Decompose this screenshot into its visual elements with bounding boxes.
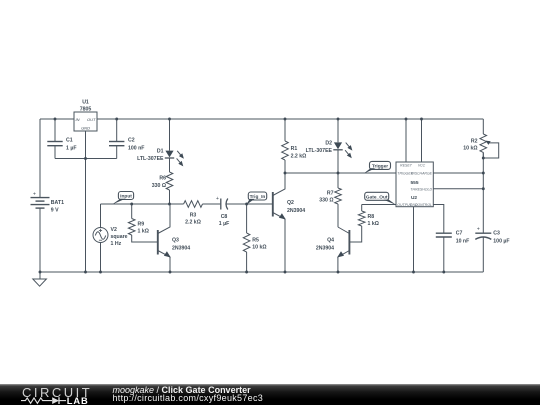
junction V+ rail / D2 bbox=[337, 118, 340, 121]
junction ground rail / Q3 bbox=[169, 271, 172, 274]
voltage regulator U1 7805 bbox=[74, 112, 97, 131]
capacitor C1 1uF bbox=[54, 119, 56, 141]
svg-text:555: 555 bbox=[410, 180, 418, 186]
svg-text:LAB: LAB bbox=[67, 396, 89, 405]
junction ground rail / Q2 bbox=[284, 271, 287, 274]
LED D1 LTL-307EE bbox=[169, 119, 171, 151]
svg-text:R6: R6 bbox=[159, 176, 166, 182]
svg-text:+: + bbox=[33, 191, 36, 197]
svg-text:7805: 7805 bbox=[80, 106, 92, 112]
resistor R9 1k bbox=[131, 204, 133, 219]
svg-text:LTL-307EE: LTL-307EE bbox=[137, 156, 164, 162]
svg-text:2N3904: 2N3904 bbox=[287, 208, 305, 214]
svg-text:330 Ω: 330 Ω bbox=[152, 183, 166, 189]
svg-text:1 Hz: 1 Hz bbox=[111, 241, 122, 247]
svg-text:VCC: VCC bbox=[418, 164, 426, 168]
svg-text:RESET: RESET bbox=[400, 164, 413, 168]
footer title text bbox=[113, 386, 264, 403]
resistor R3 2.2k bbox=[184, 201, 203, 208]
junction V+ rail / VCC bbox=[420, 118, 423, 121]
junction Trig_In node / R5 bbox=[245, 203, 248, 206]
transistor Q4 2N3904 mirrored bbox=[348, 230, 350, 255]
wire U1 GND column bbox=[85, 131, 87, 272]
flag Gate_Out bbox=[365, 192, 389, 200]
footer bar bbox=[0, 384, 540, 405]
svg-text:100 nF: 100 nF bbox=[128, 145, 144, 151]
junction input node / R6 Q3 bbox=[168, 203, 171, 206]
wire input row bbox=[101, 203, 184, 205]
svg-text:R7: R7 bbox=[327, 191, 334, 197]
svg-text:2N3904: 2N3904 bbox=[172, 246, 190, 252]
svg-text:10 kΩ: 10 kΩ bbox=[463, 146, 477, 152]
wire left rail battery column bbox=[39, 119, 41, 197]
junction R2 wiper bbox=[482, 157, 485, 160]
svg-text:R8: R8 bbox=[368, 214, 375, 220]
svg-text:1 kΩ: 1 kΩ bbox=[138, 229, 149, 235]
junction U1 GND / C1 C2 bbox=[84, 157, 87, 160]
svg-text:C8: C8 bbox=[221, 214, 228, 220]
wire control pin elbow bbox=[433, 205, 444, 234]
svg-text:R2: R2 bbox=[471, 139, 478, 145]
svg-text:2N3904: 2N3904 bbox=[316, 246, 334, 252]
svg-text:10 nF: 10 nF bbox=[456, 239, 470, 245]
svg-text:C1: C1 bbox=[66, 137, 73, 143]
resistor R1 2.2k bbox=[284, 119, 286, 141]
capacitor C8 1uF polarized bbox=[220, 199, 222, 210]
svg-text:R9: R9 bbox=[138, 222, 145, 228]
svg-text:THRESHOLD: THRESHOLD bbox=[410, 187, 432, 191]
capacitor C2 100nF bbox=[116, 119, 118, 141]
svg-text:D2: D2 bbox=[325, 141, 332, 147]
svg-text:2.2 kΩ: 2.2 kΩ bbox=[291, 154, 307, 160]
junction ground rail / Q4 bbox=[337, 271, 340, 274]
svg-text:100 µF: 100 µF bbox=[493, 239, 509, 245]
junction input node / R9 bbox=[130, 203, 133, 206]
wire 555 RESET up bbox=[405, 119, 407, 162]
battery BAT1 9V bbox=[31, 197, 50, 199]
svg-text:DISCHARGE: DISCHARGE bbox=[411, 172, 432, 176]
junction ground rail / U1 GND bbox=[84, 271, 87, 274]
svg-text:1 kΩ: 1 kΩ bbox=[368, 221, 379, 227]
svg-text:10 kΩ: 10 kΩ bbox=[252, 244, 266, 250]
wire output gate row bbox=[362, 204, 396, 206]
wire C1-C2 bottom link bbox=[55, 158, 117, 160]
wire trigger row bbox=[285, 172, 396, 174]
svg-text:+: + bbox=[216, 196, 219, 202]
wire bottom ground rail bbox=[40, 271, 483, 273]
svg-text:square: square bbox=[111, 234, 128, 240]
wire top rail left (battery to U1 IN) bbox=[40, 118, 74, 120]
wire 555 VCC up bbox=[421, 119, 423, 162]
svg-text:1 µF: 1 µF bbox=[66, 145, 76, 151]
svg-text:LTL-307EE: LTL-307EE bbox=[306, 148, 333, 154]
svg-text:U1: U1 bbox=[82, 100, 89, 106]
resistor R8 1k bbox=[361, 205, 363, 212]
svg-text:C7: C7 bbox=[456, 231, 463, 237]
junction discharge net / R2 bbox=[482, 172, 485, 175]
transistor Q3 2N3904 bbox=[157, 230, 159, 255]
svg-text:GND: GND bbox=[410, 203, 418, 207]
svg-text:Q3: Q3 bbox=[172, 238, 179, 244]
svg-text:R1: R1 bbox=[291, 146, 298, 152]
junction threshold net / C3 column bbox=[482, 187, 485, 190]
svg-text:C2: C2 bbox=[128, 137, 135, 143]
wire threshold row bbox=[433, 188, 483, 190]
junction trigger net / R1 Q2 bbox=[284, 172, 287, 175]
junction ground rail / BAT1 bbox=[39, 271, 42, 274]
junction V+ rail / C1 bbox=[54, 118, 57, 121]
svg-text:R5: R5 bbox=[252, 237, 259, 243]
flag Trigger bbox=[370, 161, 391, 169]
LED D2 LTL-307EE bbox=[337, 119, 339, 142]
wire Trig node to Q2 base bbox=[247, 203, 273, 205]
svg-text:+: + bbox=[477, 227, 480, 233]
IC U2 555 timer bbox=[396, 162, 433, 207]
voltage source V2 square 1Hz bbox=[93, 228, 108, 243]
svg-text:U2: U2 bbox=[411, 195, 417, 201]
svg-text:1 µF: 1 µF bbox=[219, 221, 229, 227]
svg-text:D1: D1 bbox=[157, 149, 164, 155]
resistor R6 330 bbox=[166, 172, 173, 190]
ground bbox=[39, 272, 41, 279]
flag Input bbox=[118, 192, 133, 200]
svg-text:IN: IN bbox=[76, 117, 80, 122]
svg-text:R3: R3 bbox=[190, 213, 197, 219]
resistor R5 10k bbox=[246, 204, 248, 233]
svg-text:OUT: OUT bbox=[87, 117, 96, 122]
svg-text:9 V: 9 V bbox=[51, 207, 59, 213]
wire C3 bottom stub bbox=[482, 237, 484, 272]
wire V2 top stub bbox=[100, 204, 102, 228]
junction ground rail / R5 bbox=[245, 271, 248, 274]
junction V+ rail / R1 bbox=[284, 118, 287, 121]
junction ground rail / V2 bbox=[99, 271, 102, 274]
junction V+ rail / RESET bbox=[405, 118, 408, 121]
junction V+ rail / D1 bbox=[168, 118, 171, 121]
wire R2 top feed bbox=[482, 119, 484, 134]
svg-text:CONTROL: CONTROL bbox=[415, 203, 432, 207]
CircuitLab logo bbox=[17, 384, 109, 405]
junction trigger net / D2 R7 bbox=[337, 172, 340, 175]
potentiometer R2 10k bbox=[480, 134, 487, 152]
transistor Q2 2N3904 bbox=[272, 192, 274, 217]
svg-text:2.2 kΩ: 2.2 kΩ bbox=[185, 220, 201, 226]
capacitor C7 10nF bbox=[436, 232, 452, 234]
svg-text:V2: V2 bbox=[111, 227, 117, 233]
svg-text:Q4: Q4 bbox=[327, 238, 334, 244]
flag Trig_In bbox=[248, 192, 266, 200]
svg-text:C3: C3 bbox=[493, 231, 500, 237]
wire V2 bottom stub bbox=[100, 243, 102, 273]
junction ground rail / C7 bbox=[442, 271, 445, 274]
resistor R7 330 bbox=[337, 173, 339, 188]
svg-text:BAT1: BAT1 bbox=[51, 200, 64, 206]
svg-text:GND: GND bbox=[81, 126, 90, 131]
svg-text:Gate_Out: Gate_Out bbox=[366, 194, 388, 200]
junction V+ rail / C2 bbox=[115, 118, 118, 121]
wire 555 GND column bbox=[413, 207, 415, 272]
svg-text:330 Ω: 330 Ω bbox=[319, 198, 333, 204]
wire top rail right (U1 OUT to R2 corner) bbox=[97, 118, 483, 120]
wire discharge row bbox=[433, 172, 483, 174]
capacitor C3 100uF polarized bbox=[475, 232, 491, 234]
svg-text:Q2: Q2 bbox=[287, 200, 294, 206]
junction ground rail / U2 GND bbox=[412, 271, 415, 274]
wire right column R2 to C3 bbox=[482, 152, 484, 233]
